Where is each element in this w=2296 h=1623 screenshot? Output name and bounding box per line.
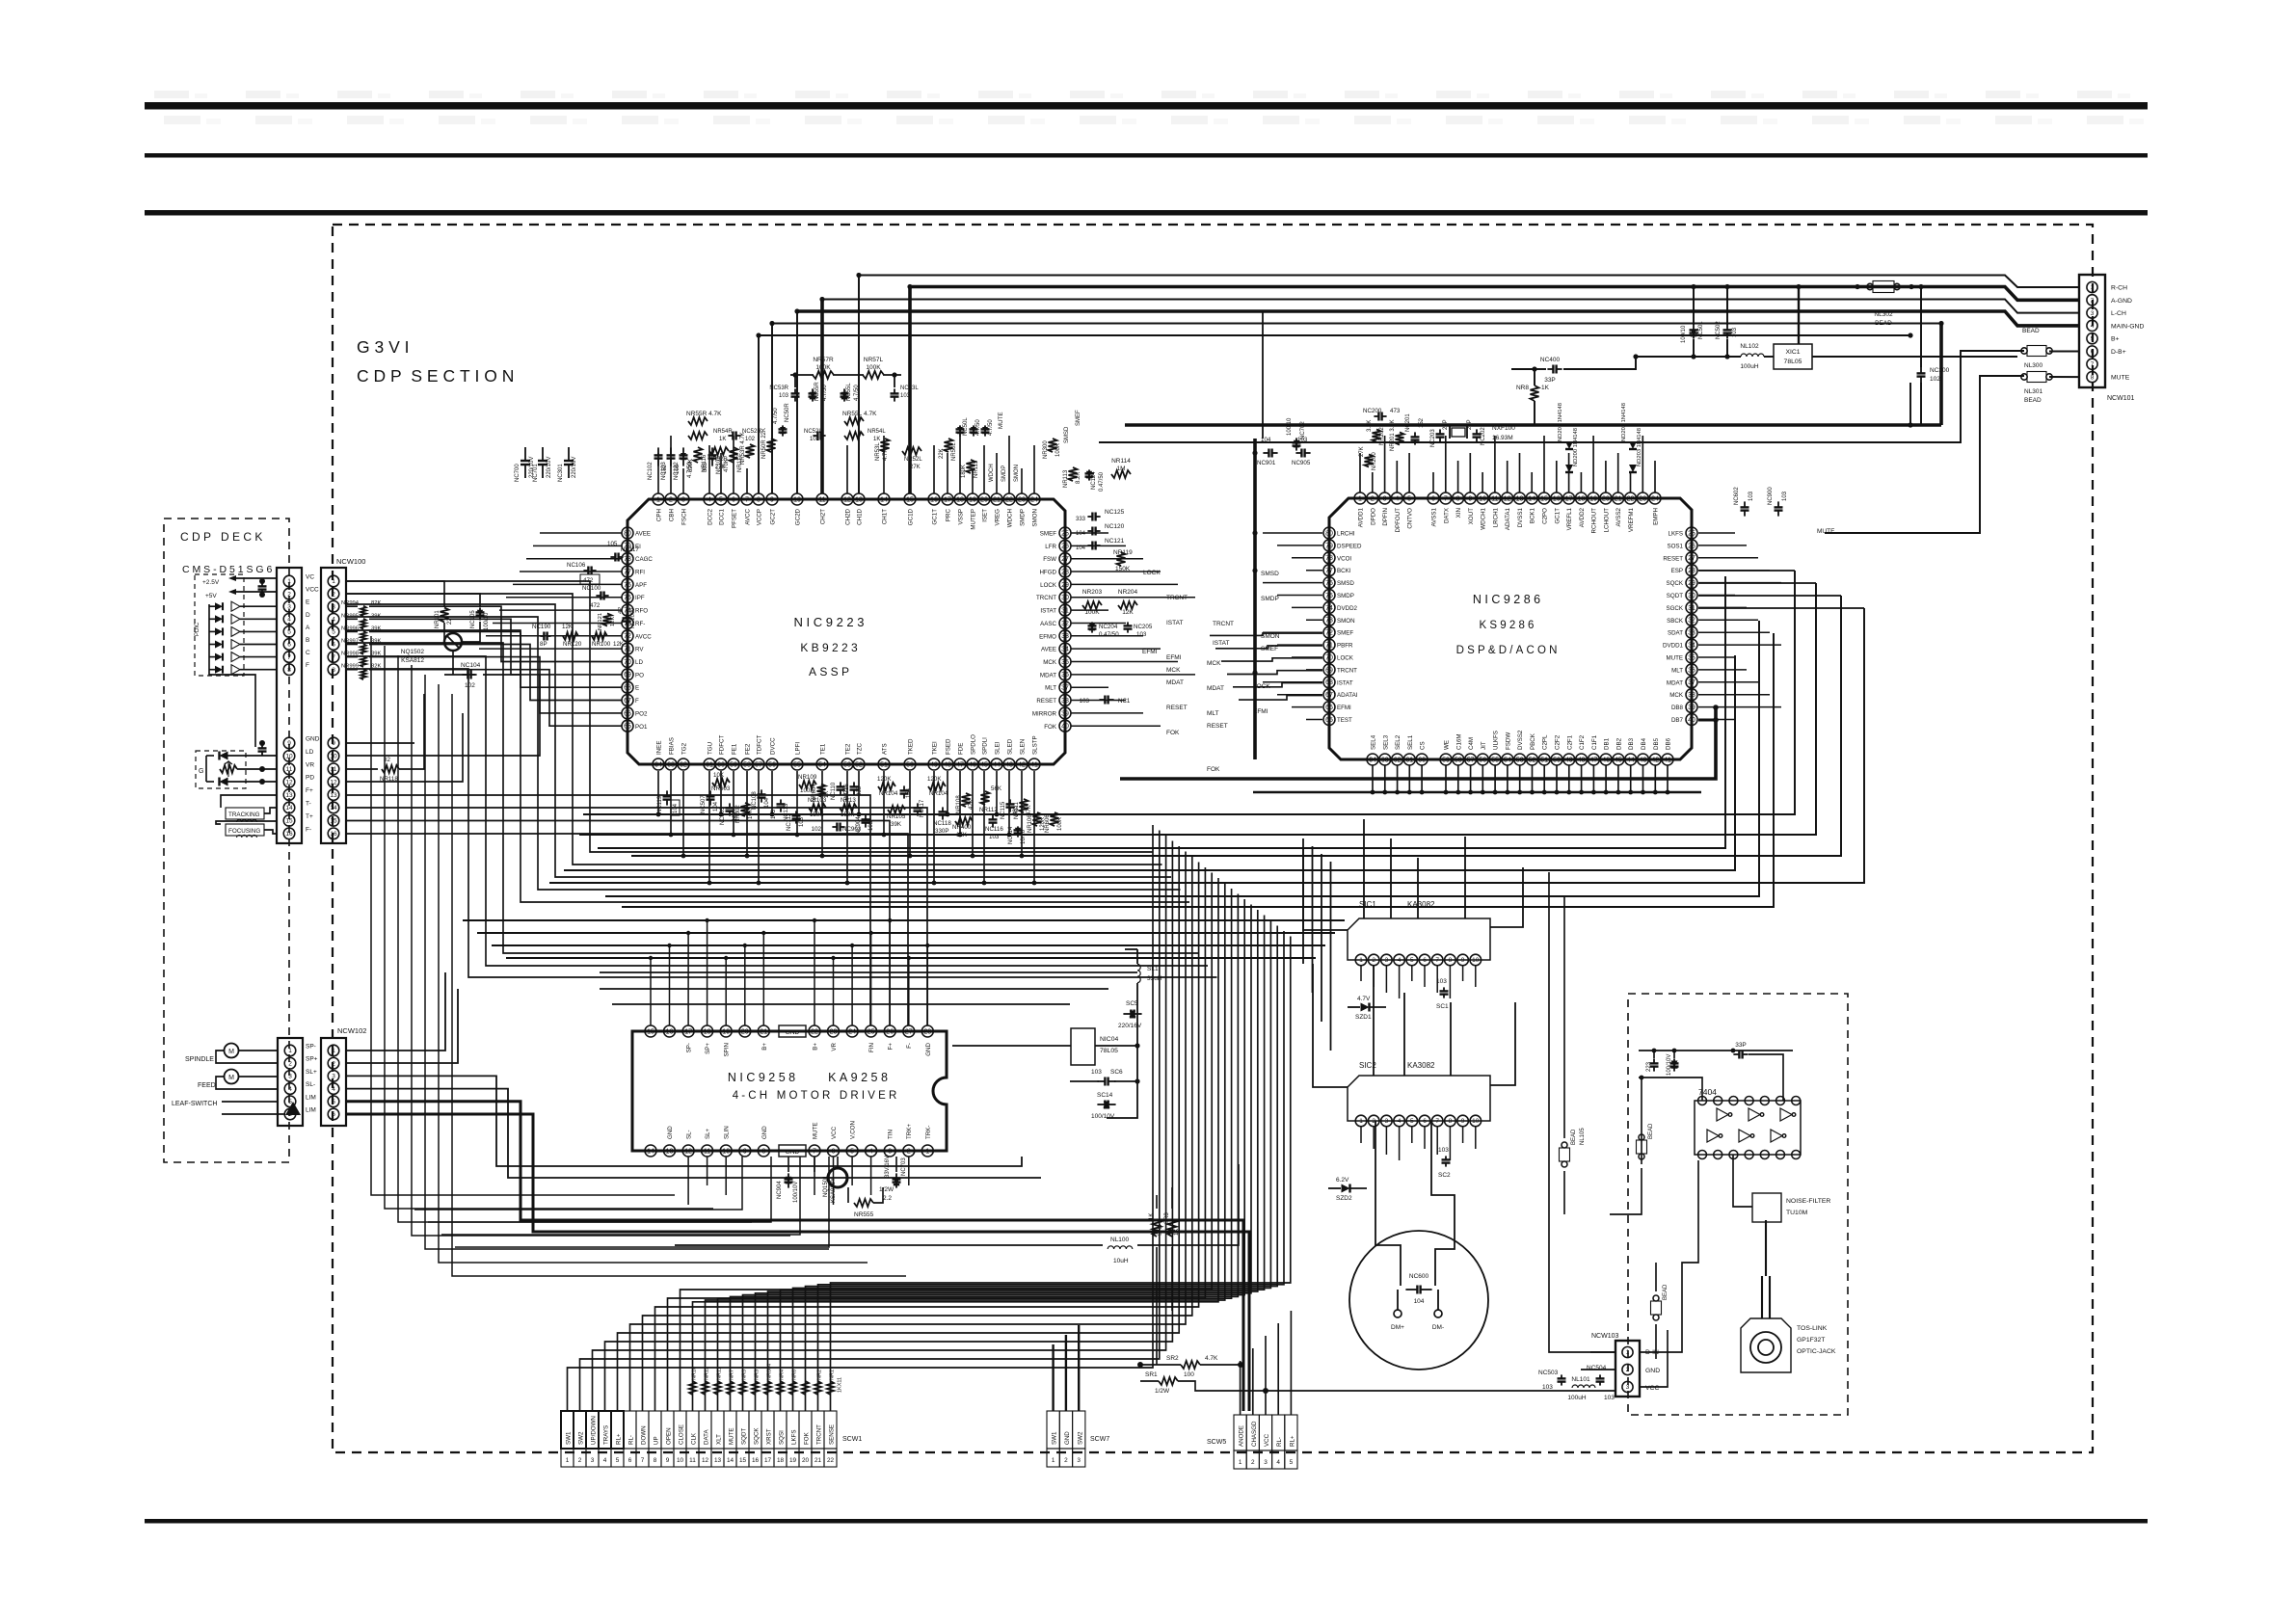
svg-text:78L05: 78L05 <box>1784 359 1802 365</box>
svg-text:SOS1: SOS1 <box>1667 543 1683 549</box>
svg-text:SZD1: SZD1 <box>1355 1014 1372 1021</box>
svg-text:+5V: +5V <box>205 593 217 599</box>
wire stub NIC9223 top pin 16 <box>933 445 935 493</box>
NIC9223 pin 6 (PFSET) <box>728 493 739 505</box>
svg-text:C D P D E C K: C D P D E C K <box>180 530 262 544</box>
svg-text:69: 69 <box>1325 667 1333 674</box>
resistor NR999 82K <box>360 669 366 679</box>
svg-text:C4M: C4M <box>1468 737 1475 750</box>
svg-text:WDCH: WDCH <box>989 464 995 482</box>
wire NCW103 VCC <box>1640 1330 1668 1387</box>
NIC9286 pin 57 (C4M) <box>1465 754 1477 765</box>
GND cap near pin9 <box>261 744 263 748</box>
wire stub NIC9286 bottom pin 62 <box>1397 765 1399 792</box>
svg-text:GC1T: GC1T <box>1554 508 1561 524</box>
wires cross-links 9223 to 9286 <box>1210 633 1322 635</box>
svg-text:AASC: AASC <box>1040 621 1056 627</box>
svg-text:NR12: NR12 <box>705 1367 710 1380</box>
svg-text:SEL2: SEL2 <box>1395 734 1402 750</box>
svg-text:NC205: NC205 <box>1134 624 1153 630</box>
svg-text:TOS-LINK: TOS-LINK <box>1797 1325 1828 1332</box>
NIC9223 pin 43 (SLED) <box>1003 758 1015 770</box>
svg-text:104: 104 <box>764 797 770 808</box>
SIC1 pin 3 <box>1381 954 1393 966</box>
svg-text:21: 21 <box>993 496 1001 503</box>
SIC1 pin 5 <box>1406 954 1418 966</box>
NIC9258 pin 22 <box>809 1025 820 1037</box>
capacitor NC202 27P <box>1476 429 1478 434</box>
svg-text:3: 3 <box>591 1457 595 1464</box>
svg-text:NR8: NR8 <box>1516 385 1529 391</box>
svg-text:49: 49 <box>930 761 938 768</box>
svg-text:6: 6 <box>832 1148 836 1155</box>
wire SCW1 pin 20 run <box>806 926 1278 1412</box>
NCW100 pin 2 <box>328 588 339 599</box>
svg-text:220/16V: 220/16V <box>572 457 577 478</box>
resistor NR200 27K <box>1365 455 1374 467</box>
svg-text:NC52L: NC52L <box>804 429 822 435</box>
svg-text:NR3: NR3 <box>755 1370 761 1380</box>
wire stub NIC9286 top pin 24 <box>1654 461 1656 492</box>
NIC9223 pin 62 (TG2) <box>678 758 689 770</box>
svg-text:NC400: NC400 <box>1540 357 1561 363</box>
svg-text:NC106: NC106 <box>567 562 586 569</box>
NIC9286 pin 33 (SDAT) <box>1686 626 1697 638</box>
NR118 resistor <box>382 765 399 773</box>
NIC9223 pin 61 (TGU) <box>704 758 715 770</box>
NCW102 pin 2 <box>328 1057 339 1069</box>
svg-text:SLEN: SLEN <box>1020 739 1027 755</box>
svg-text:UP/DOWN: UP/DOWN <box>591 1416 598 1445</box>
svg-text:SMON: SMON <box>1261 633 1280 640</box>
wire stub NIC9223 top pin 22 <box>1008 436 1010 493</box>
NCW100 pin 11 <box>328 763 339 775</box>
svg-text:NR50R 22K: NR50R 22K <box>761 428 767 459</box>
wire stub NIC9286 bottom pin 43 <box>1642 765 1644 792</box>
svg-text:ND200 1N4148: ND200 1N4148 <box>1573 428 1579 466</box>
capacitor SC5 220/16V <box>1123 1013 1131 1015</box>
svg-text:4: 4 <box>288 1086 292 1093</box>
svg-text:102: 102 <box>812 826 822 833</box>
svg-text:54: 54 <box>1504 757 1511 763</box>
svg-text:RFI: RFI <box>635 570 645 576</box>
IC NIC9258 body <box>632 1031 947 1151</box>
NIC9286 pin 28 (ESP) <box>1686 565 1697 576</box>
svg-text:9: 9 <box>1468 495 1472 502</box>
svg-text:FBIAS: FBIAS <box>669 737 676 755</box>
capacitor NC300 102 <box>1920 366 1922 373</box>
NIC9286 pin 53 (DVSS2) <box>1514 754 1526 765</box>
svg-text:4: 4 <box>1276 1459 1280 1466</box>
svg-text:80: 80 <box>624 530 631 537</box>
svg-text:34: 34 <box>1688 643 1695 650</box>
wires SCW7 pins up <box>1052 1344 1054 1411</box>
FOCUSING coil label <box>226 824 264 836</box>
svg-text:21: 21 <box>760 1028 767 1035</box>
svg-text:57: 57 <box>755 761 762 768</box>
NIC9286 pin 18 (AVDD2) <box>1575 492 1587 504</box>
NIC9223 pin 19 (MUTEP) <box>967 493 978 505</box>
wires SCW5 pins up <box>1240 1361 1241 1415</box>
svg-text:VC: VC <box>306 574 314 581</box>
svg-text:7: 7 <box>641 1457 645 1464</box>
NIC9286 pin 36 (MLT) <box>1686 664 1697 676</box>
svg-text:NR50L: NR50L <box>951 442 957 461</box>
wire SR3/SR4 feeds <box>1156 1195 1158 1209</box>
wire stub NIC9286 bottom pin 64 <box>1372 765 1374 792</box>
PDIC common wire <box>209 604 255 747</box>
NIC9223 pin 39 (MIRROR) <box>1059 707 1071 719</box>
wire stub NIC9223 top pin 14 <box>883 436 885 493</box>
connector SCW7 3pin <box>1047 1411 1059 1449</box>
svg-text:NR2: NR2 <box>817 1370 823 1380</box>
svg-text:DB7: DB7 <box>1671 717 1684 724</box>
svg-text:4.7/50: 4.7/50 <box>975 419 981 436</box>
svg-text:MAIN-GND: MAIN-GND <box>2111 323 2144 330</box>
wire stub NIC9286 bottom pin 49 <box>1568 765 1570 792</box>
NIC9286 pin 58 (C16M) <box>1453 754 1464 765</box>
resistor SR3 1K <box>1168 1219 1177 1237</box>
svg-text:12: 12 <box>1504 495 1511 502</box>
svg-text:13: 13 <box>666 1148 674 1155</box>
svg-text:VR: VR <box>306 761 314 768</box>
svg-text:14: 14 <box>330 805 337 811</box>
svg-text:D: D <box>306 612 310 619</box>
capacitor NC503b 102 <box>729 803 731 808</box>
svg-text:22: 22 <box>1627 495 1635 502</box>
svg-text:TG2: TG2 <box>681 742 688 755</box>
svg-text:SL+: SL+ <box>705 1128 711 1139</box>
svg-text:10: 10 <box>722 1148 730 1155</box>
svg-text:SCW1: SCW1 <box>842 1436 862 1443</box>
resistor NR57L 100K <box>863 371 884 379</box>
resistor NR55R 4.7K <box>688 417 707 425</box>
svg-text:16: 16 <box>752 1457 760 1464</box>
NIC9223 pin 70 (LD) <box>622 656 633 668</box>
svg-text:41: 41 <box>1030 761 1038 768</box>
wire 7404 power rail top <box>1641 1078 1642 1101</box>
svg-text:50: 50 <box>906 761 914 768</box>
NIC9223 pin 5 (DCC1) <box>715 493 727 505</box>
7404 bottom pin 4 <box>1745 1151 1753 1159</box>
svg-text:DB6: DB6 <box>1666 737 1672 750</box>
transistor NQ1501 KSA928Y <box>828 1168 847 1187</box>
svg-text:75: 75 <box>624 595 631 601</box>
svg-text:14: 14 <box>1528 495 1535 502</box>
resistor ladder above SCW1 <box>689 1381 696 1395</box>
svg-text:1: 1 <box>2091 284 2095 291</box>
NIC9223 pin 37 (MLT) <box>1059 681 1071 693</box>
svg-text:ATS: ATS <box>882 743 889 755</box>
svg-text:25: 25 <box>1688 530 1695 537</box>
svg-text:64: 64 <box>654 761 662 768</box>
deck connector pin 3 <box>283 600 295 612</box>
NIC9286 pin 69 (TRCNT) <box>1323 664 1335 676</box>
svg-text:EMPH: EMPH <box>1653 508 1660 525</box>
wire stub NIC9286 top pin 8 <box>1457 461 1459 492</box>
svg-text:D-B+: D-B+ <box>2111 349 2126 356</box>
NIC9223 pin 20 (ISET) <box>978 493 990 505</box>
svg-text:SPINDLE: SPINDLE <box>185 1056 214 1063</box>
svg-text:NL300: NL300 <box>2024 362 2043 369</box>
capacitor NC204 0.47/50 <box>1089 624 1095 629</box>
svg-text:BCK1: BCK1 <box>1530 507 1536 523</box>
NCW102 pin 4 <box>328 1083 339 1095</box>
7404 top pin 8 <box>1792 1097 1801 1105</box>
svg-text:36: 36 <box>1061 672 1069 678</box>
SIC2 pin 10 <box>1470 1115 1482 1127</box>
wire beads in dashed box <box>1641 1101 1642 1164</box>
svg-text:SMDP: SMDP <box>1001 466 1007 482</box>
capacitor 4.7/50 right <box>971 427 976 433</box>
svg-text:75: 75 <box>1325 593 1333 599</box>
svg-text:DB1: DB1 <box>1604 737 1611 750</box>
wire LD/VR/PD local rows <box>346 675 540 756</box>
svg-text:103: 103 <box>1091 1069 1102 1076</box>
wire top bus row 5 to NCW101 pin 5 <box>771 324 773 494</box>
svg-text:WDCH1: WDCH1 <box>1481 507 1487 529</box>
svg-text:PO1: PO1 <box>635 724 648 731</box>
resistor SR1 100 <box>1159 1377 1178 1385</box>
svg-text:SPIN: SPIN <box>724 1043 731 1056</box>
svg-text:KSA812: KSA812 <box>401 657 424 664</box>
NIC9286 pin 65 (TEST) <box>1323 714 1335 726</box>
svg-text:RCHOUT: RCHOUT <box>1591 508 1598 534</box>
svg-text:AVDD2: AVDD2 <box>1579 507 1586 527</box>
capacitor NC503 103 <box>1561 1374 1562 1378</box>
svg-text:10: 10 <box>793 496 801 503</box>
svg-text:NC901: NC901 <box>1257 460 1276 466</box>
NIC9223 pin 40 (FOK) <box>1059 720 1071 732</box>
svg-text:NR108: NR108 <box>956 795 962 813</box>
svg-text:ISTAT: ISTAT <box>1166 620 1183 626</box>
capacitor NC115 683 <box>1009 799 1011 804</box>
7404 bottom pin 2 <box>1714 1151 1722 1159</box>
7404 top pin 12 <box>1729 1097 1738 1105</box>
svg-text:NR104: NR104 <box>929 790 948 797</box>
svg-text:1: 1 <box>656 496 660 503</box>
svg-text:66: 66 <box>624 710 631 717</box>
NIC9286 pin 73 (SMON) <box>1323 614 1335 625</box>
wire mid vertical 1 <box>1312 846 1314 993</box>
svg-text:NR57L: NR57L <box>864 357 884 363</box>
NIC9258 pin 7 <box>809 1145 820 1157</box>
capacitor NC703 33V/16V <box>895 1173 897 1179</box>
svg-text:SMDP: SMDP <box>1261 596 1279 602</box>
NIC9286 pin 12 (ADATA1) <box>1502 492 1513 504</box>
svg-text:N I C 9 2 8 6: N I C 9 2 8 6 <box>1473 593 1540 606</box>
svg-text:NC100: NC100 <box>582 585 601 592</box>
NIC9223 pin 13 (CH1D) <box>853 493 865 505</box>
svg-text:820K: 820K <box>688 459 694 472</box>
photodiode row 3 <box>215 627 223 635</box>
NIC9258 pin 4 <box>866 1145 877 1157</box>
resistor NR602 10K <box>741 803 750 816</box>
svg-text:100/10: 100/10 <box>484 612 490 630</box>
wire stub NIC9223 bottom pin 59 <box>733 771 734 835</box>
ferrite bead NL302 <box>1867 283 1873 289</box>
svg-text:F-: F- <box>306 826 311 833</box>
svg-text:ANODE: ANODE <box>1239 1425 1245 1447</box>
svg-text:NC700: NC700 <box>515 464 521 482</box>
svg-text:28: 28 <box>1061 569 1069 575</box>
svg-text:1: 1 <box>1359 957 1363 964</box>
NCW103 pin 3 <box>1622 1381 1633 1392</box>
svg-text:CLOSE: CLOSE <box>679 1424 685 1445</box>
NIC9286 pin 25 (LKFS) <box>1686 527 1697 539</box>
svg-text:72: 72 <box>624 633 631 640</box>
svg-text:MDAT: MDAT <box>1166 679 1184 686</box>
wire stub NIC9223 bottom pin 64 <box>657 771 659 814</box>
svg-text:100/10: 100/10 <box>1681 325 1687 343</box>
svg-text:34: 34 <box>1061 647 1069 653</box>
photodiode row 2 <box>215 615 223 623</box>
svg-text:16: 16 <box>330 831 337 838</box>
svg-text:31: 31 <box>1688 605 1695 612</box>
svg-text:12K: 12K <box>562 624 574 630</box>
left vertical bundle <box>371 636 675 1195</box>
svg-text:3: 3 <box>888 1148 892 1155</box>
NIC9223 pin 78 (CAGC) <box>622 553 633 565</box>
NIC9286 pin 79 (DSPEED) <box>1323 540 1335 551</box>
wire corridor row y930 <box>605 621 1759 896</box>
svg-text:GC2D: GC2D <box>795 508 802 525</box>
wire stub NIC9223 top pin 7 <box>746 468 748 493</box>
feed motor symbol <box>225 1070 239 1084</box>
svg-text:ND203 1N4148: ND203 1N4148 <box>1637 428 1642 466</box>
NIC9223 pin 56 (DVCC) <box>766 758 778 770</box>
wires NIC9258 bottom pins down <box>687 1157 689 1205</box>
svg-text:20: 20 <box>741 1028 749 1035</box>
resistor NR113 8.2K <box>1069 467 1078 481</box>
svg-text:44: 44 <box>1627 757 1635 763</box>
capacitor NC301 220/16V <box>568 447 570 461</box>
svg-text:VCC: VCC <box>1645 1385 1659 1392</box>
NIC9223 pin 1 (CPH) <box>653 493 664 505</box>
NIC9286 pin 6 (AVSS1) <box>1428 492 1439 504</box>
svg-text:15: 15 <box>330 818 337 825</box>
svg-text:103: 103 <box>1136 631 1147 638</box>
svg-text:FOK: FOK <box>1166 730 1180 736</box>
wire 7404 bottom to noise filter <box>1733 1155 1752 1207</box>
svg-text:NR300: NR300 <box>1043 440 1049 459</box>
svg-text:10K: 10K <box>713 772 725 779</box>
svg-text:20: 20 <box>1602 495 1610 502</box>
svg-text:33: 33 <box>1688 630 1695 637</box>
NIC9223 pin 21 (VREG) <box>991 493 1002 505</box>
NIC9223 pin 58 (FE2) <box>741 758 753 770</box>
deck connector pin 11 <box>283 763 295 775</box>
svg-text:ISTAT: ISTAT <box>1213 640 1229 647</box>
svg-text:XIC1: XIC1 <box>1785 349 1800 356</box>
svg-text:7: 7 <box>332 654 335 661</box>
svg-text:18: 18 <box>1578 495 1586 502</box>
svg-text:DVDD2: DVDD2 <box>1337 605 1358 612</box>
photodiode row 4 <box>215 641 223 649</box>
svg-text:43: 43 <box>1005 761 1013 768</box>
svg-text:100K: 100K <box>866 364 881 371</box>
svg-text:8P: 8P <box>540 641 547 648</box>
svg-text:2: 2 <box>1064 1457 1068 1464</box>
svg-text:7: 7 <box>745 496 749 503</box>
svg-text:C1F2: C1F2 <box>1579 734 1586 750</box>
svg-text:NR4: NR4 <box>780 1370 786 1380</box>
svg-text:SC2: SC2 <box>1438 1172 1451 1179</box>
svg-text:NR1: NR1 <box>830 1370 836 1380</box>
NCW101 pin 1 <box>2087 281 2097 292</box>
svg-text:7: 7 <box>813 1148 816 1155</box>
NIC9223 pin 46 (SPDLO) <box>967 758 978 770</box>
svg-text:103: 103 <box>1438 1147 1449 1154</box>
svg-text:5: 5 <box>719 496 723 503</box>
svg-text:IPF: IPF <box>635 595 645 601</box>
svg-text:NR109: NR109 <box>798 774 817 781</box>
NCW100 pin 6 <box>328 639 339 651</box>
svg-text:AVEE: AVEE <box>635 531 651 538</box>
capacitor NC114 10/16 <box>1015 828 1021 834</box>
svg-text:NR111: NR111 <box>1014 802 1020 819</box>
svg-text:FOK: FOK <box>1044 724 1057 731</box>
svg-text:8: 8 <box>287 667 291 674</box>
svg-text:SMEF: SMEF <box>1040 531 1056 538</box>
wire NCW102 row5 LIM <box>346 1102 1243 1411</box>
svg-text:LEAF-SWITCH: LEAF-SWITCH <box>172 1101 217 1107</box>
NIC9286 pin 76 (SMSD) <box>1323 577 1335 589</box>
wire stub NIC9223 top pin 17 <box>947 453 948 493</box>
NIC9223 pin 55 (LPFI) <box>791 758 803 770</box>
svg-text:VCCP: VCCP <box>757 509 763 525</box>
NIC9258 pin 19 <box>720 1025 732 1037</box>
NIC9286 pin 29 (SQCK) <box>1686 577 1697 589</box>
svg-text:C: C <box>306 650 310 656</box>
wire stub NIC9223 bottom pin 44 <box>996 771 998 814</box>
svg-text:DB8: DB8 <box>1671 705 1684 711</box>
capacitor SC1 103 <box>1443 987 1445 991</box>
wire stub NIC9223 bottom pin 55 <box>796 771 798 835</box>
capacitor NC113 103 <box>780 799 782 804</box>
svg-text:BEAD: BEAD <box>2022 328 2040 334</box>
svg-text:NC104: NC104 <box>461 662 481 669</box>
svg-text:NC904: NC904 <box>777 1181 783 1199</box>
deck connector pin 13 <box>283 789 295 801</box>
svg-text:2: 2 <box>1251 1459 1255 1466</box>
svg-text:39: 39 <box>1688 705 1695 711</box>
svg-text:FE2: FE2 <box>745 743 752 755</box>
svg-text:NIC04: NIC04 <box>1100 1036 1118 1043</box>
svg-text:NR200: NR200 <box>1372 452 1377 470</box>
wire stub NIC9286 top pin 5 <box>1408 453 1410 492</box>
wire stub NIC9286 bottom pin 58 <box>1457 765 1459 792</box>
svg-text:18: 18 <box>704 1028 711 1035</box>
NIC9286 pin 32 (SBCK) <box>1686 614 1697 625</box>
wire stub NIC9286 bottom pin 47 <box>1592 765 1594 792</box>
svg-text:45: 45 <box>980 761 988 768</box>
capacitor NC201 152 <box>1414 432 1416 437</box>
NIC9286 pin 64 (SEL4) <box>1367 754 1378 765</box>
NIC9223 pin 49 (TKEI) <box>928 758 940 770</box>
deck connector pin 12 <box>283 776 295 787</box>
NIC9258 pin 25 <box>866 1025 877 1037</box>
svg-text:154: 154 <box>906 787 912 798</box>
svg-text:14: 14 <box>727 1457 734 1464</box>
svg-text:49: 49 <box>1565 757 1573 763</box>
svg-text:DB3: DB3 <box>1628 737 1635 750</box>
svg-text:1K: 1K <box>873 437 880 442</box>
svg-text:SP-: SP- <box>686 1043 693 1052</box>
svg-text:6: 6 <box>332 1111 335 1118</box>
svg-text:74: 74 <box>1325 605 1333 612</box>
wire stub NIC9286 bottom pin 60 <box>1421 765 1423 792</box>
